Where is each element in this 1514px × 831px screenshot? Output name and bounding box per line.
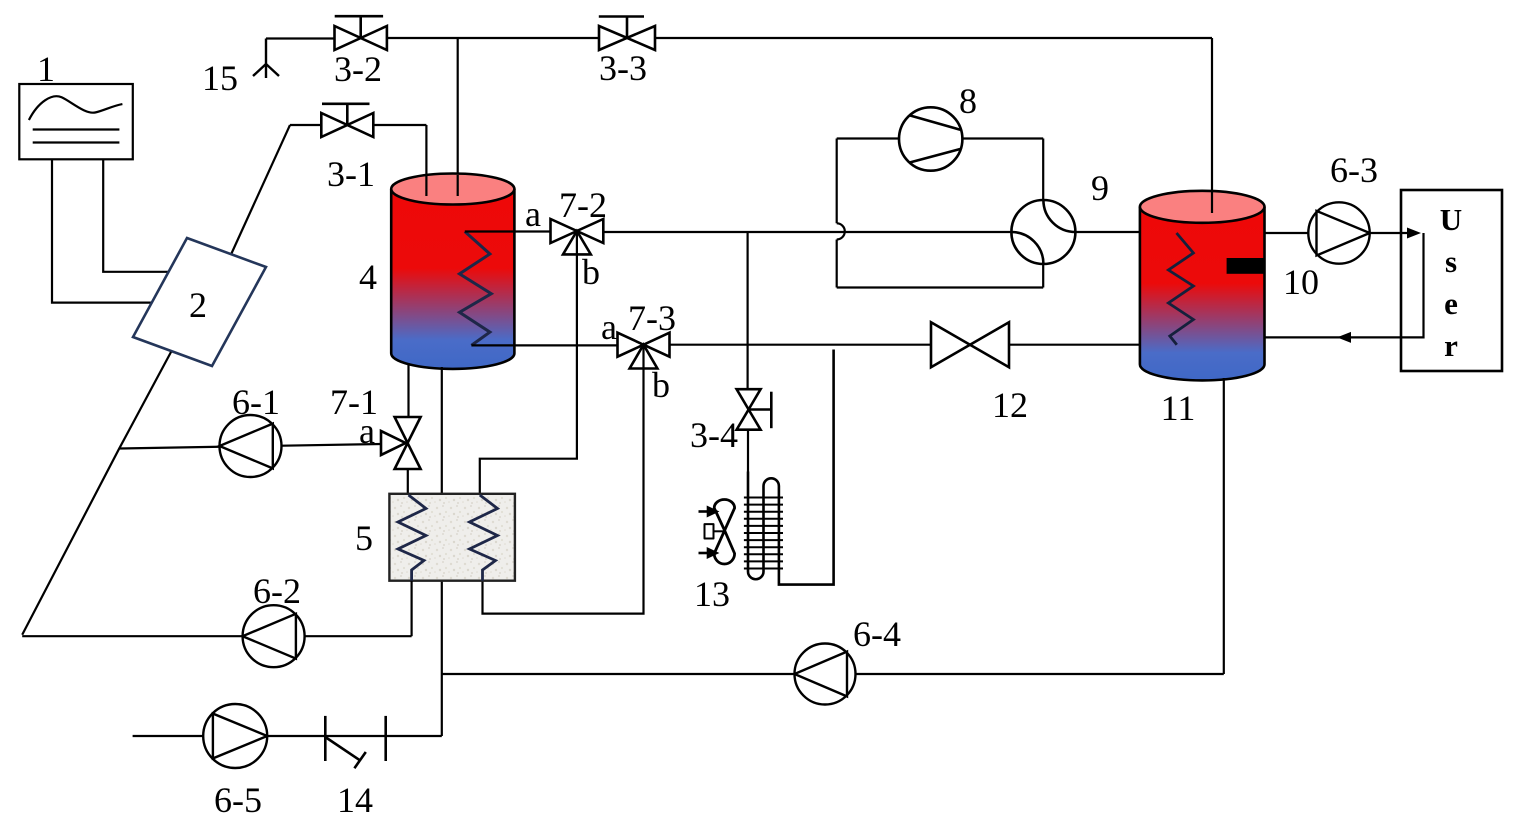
- tank 11 top ellipse: [1140, 191, 1265, 223]
- valve 3-4: [737, 389, 772, 430]
- compressor 8: [899, 107, 962, 170]
- svg-text:1: 1: [37, 49, 55, 89]
- svg-text:e: e: [1444, 286, 1458, 321]
- pump 6-1: [220, 415, 282, 477]
- svg-text:7-2: 7-2: [559, 185, 607, 225]
- wire diagonal from collector 2 to valve 3-1 line: [231, 125, 290, 255]
- four-way valve 9: [1011, 200, 1075, 264]
- wire tank 11 supply to pump 6-3: [1265, 232, 1309, 234]
- valve 3-2: [335, 16, 387, 50]
- wire 7-3 to valve 12: [670, 344, 932, 346]
- svg-text:a: a: [525, 194, 541, 234]
- wire pump 6-5 line: [133, 735, 442, 737]
- tank 4 top port stubs: [426, 175, 457, 196]
- svg-text:6-4: 6-4: [853, 614, 901, 654]
- valve 3-3: [599, 17, 655, 51]
- wire controller left lead to collector: [52, 159, 152, 302]
- refrigerant loop rectangle for compressor 8 and valve 9: [837, 139, 1043, 288]
- wire 7-2 b port down and to heat exchanger 5: [480, 231, 577, 495]
- svg-text:6-3: 6-3: [1330, 150, 1378, 190]
- wire pump 6-1 line: [119, 444, 381, 449]
- wire tank 4 bottom right port long line down: [441, 367, 443, 736]
- tank 11 body: [1140, 207, 1265, 381]
- wire tank 4 coil top to valve 7-2: [465, 230, 551, 232]
- svg-text:12: 12: [992, 385, 1028, 425]
- svg-text:13: 13: [694, 574, 730, 614]
- wire heat exchanger 5 left coil bottom to pump 6-2 line: [411, 581, 413, 637]
- wire four-way valve 9 to tank 11 coil: [1075, 231, 1176, 233]
- user box: [1401, 190, 1502, 371]
- svg-text:14: 14: [337, 780, 373, 820]
- svg-text:7-3: 7-3: [628, 298, 676, 338]
- heat exchanger 5: [389, 494, 515, 581]
- wire tank 11 bottom port down: [1223, 378, 1225, 674]
- tank 11 heating coil: [1168, 233, 1193, 345]
- wire valve 12 to tank 11 coil bottom: [1009, 344, 1177, 346]
- three-way valve 7-2: [551, 219, 604, 254]
- controller box 1: [19, 84, 133, 159]
- svg-text:4: 4: [359, 257, 377, 297]
- svg-text:a: a: [359, 411, 375, 451]
- svg-text:3-2: 3-2: [334, 49, 382, 89]
- wire top line from valve 3-2 to right corner: [387, 37, 1212, 39]
- fan of unit 13: [705, 500, 735, 565]
- tank 4 body: [391, 189, 514, 369]
- valve 3-1: [321, 104, 373, 137]
- vent symbol 15: [253, 39, 279, 79]
- heat exchanger 5 right coil: [470, 495, 498, 581]
- evaporator coil 13 serpentine: [748, 350, 834, 585]
- svg-text:3-3: 3-3: [599, 48, 647, 88]
- evaporator 13 fins: [744, 498, 783, 569]
- pump 6-2: [243, 605, 305, 667]
- wire valve 3-4 down to evaporator coil 13: [747, 430, 749, 472]
- wire junction down to valve 3-4: [746, 232, 748, 389]
- svg-text:b: b: [582, 252, 600, 292]
- wire 7-3 b port down and to heat exchanger 5: [483, 345, 644, 614]
- wire pump 6-2 line: [22, 635, 411, 637]
- heater element 10 black bar: [1227, 258, 1265, 274]
- three-way valve 7-3: [618, 333, 670, 369]
- svg-text:3-1: 3-1: [327, 154, 375, 194]
- wire diagonal from collector 2 down to pump lines: [22, 352, 171, 635]
- three-way valve 7-1: [381, 417, 421, 469]
- wire to valve 3-1 and into tank 4 top left port: [290, 125, 426, 197]
- svg-text:a: a: [601, 307, 617, 347]
- heat exchanger 5 left coil: [398, 495, 426, 581]
- svg-text:3-4: 3-4: [690, 415, 738, 455]
- svg-text:10: 10: [1283, 262, 1319, 302]
- svg-text:6-2: 6-2: [253, 571, 301, 611]
- fan air flow arrows of 13: [699, 508, 717, 558]
- svg-text:6-5: 6-5: [214, 780, 262, 820]
- wire top line left of valve 3-2: [266, 37, 335, 39]
- wire user return to tank 11 with arrow: [1265, 233, 1424, 337]
- tank 4 top ellipse: [391, 174, 514, 205]
- wire valve 7-1 down to heat exchanger 5: [407, 469, 409, 495]
- wire vertical into tank 11 top port: [1211, 38, 1213, 210]
- pump 6-4: [795, 644, 856, 705]
- wire tank 4 bottom left port to valve 7-1: [407, 363, 409, 417]
- wire main line 7-2 to four-way valve 9: [603, 231, 1011, 233]
- wire controller right lead to collector: [103, 159, 168, 271]
- svg-text:2: 2: [189, 285, 207, 325]
- tank 11 top port stub: [1211, 192, 1213, 213]
- tank 4 heating coil: [460, 232, 492, 346]
- wire tank 4 coil bottom to valve 7-3: [471, 344, 617, 346]
- svg-text:8: 8: [959, 81, 977, 121]
- svg-text:b: b: [652, 365, 670, 405]
- check valve 14: [325, 716, 385, 768]
- wire vertical into tank 4 top right port: [457, 38, 459, 197]
- wire hop where main line crosses loop: [837, 223, 845, 239]
- pump 6-5: [203, 704, 267, 768]
- svg-text:15: 15: [202, 58, 238, 98]
- svg-text:s: s: [1445, 244, 1457, 279]
- wire pump 6-3 to user box with arrow: [1370, 232, 1408, 234]
- pump 6-3: [1308, 202, 1369, 263]
- svg-text:r: r: [1444, 328, 1458, 363]
- svg-text:6-1: 6-1: [232, 382, 280, 422]
- svg-text:U: U: [1440, 202, 1462, 237]
- svg-text:5: 5: [355, 518, 373, 558]
- valve 12: [931, 322, 1009, 367]
- wire pump 6-4 line: [442, 673, 1224, 675]
- svg-text:11: 11: [1161, 388, 1196, 428]
- svg-text:9: 9: [1091, 168, 1109, 208]
- solar collector 2: [133, 238, 266, 366]
